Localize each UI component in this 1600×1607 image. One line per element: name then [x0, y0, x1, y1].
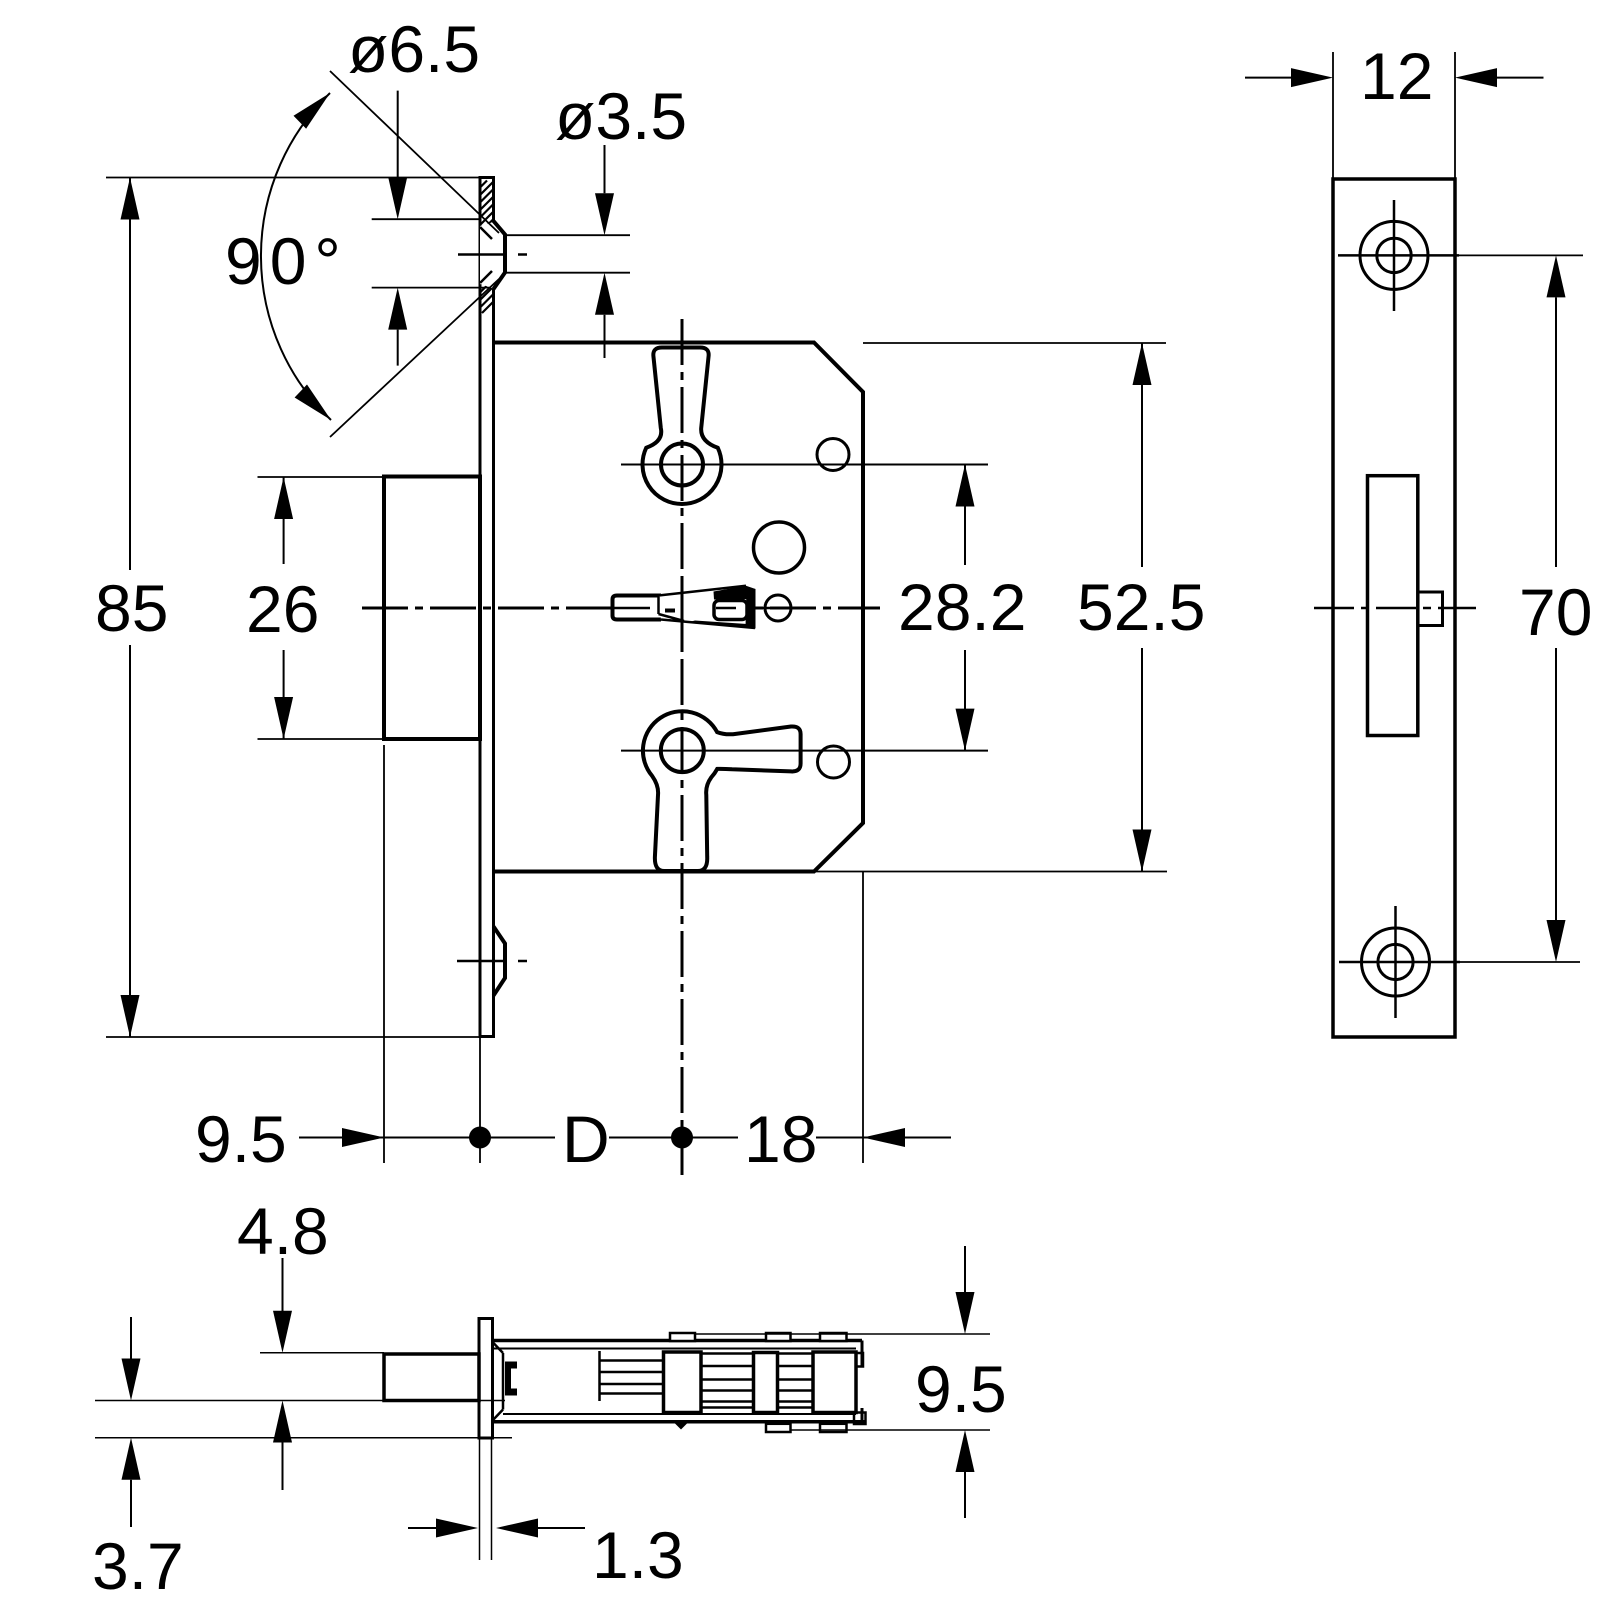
bolt protruding left (front view)	[384, 477, 480, 740]
top view: bolt head	[384, 1354, 479, 1401]
dimension o3.5 line and arrows	[604, 145, 606, 358]
top lever (handle + ring silhouette)	[642, 348, 721, 504]
node: center line through top lever hole y=464.5	[621, 464, 988, 466]
top view: faceplate extension lines for 1.3	[480, 1438, 492, 1560]
top view: faceplate bar	[479, 1319, 493, 1439]
middle circle hole	[754, 522, 805, 573]
top view: bolt tail bracket	[505, 1362, 517, 1396]
svg-text:12: 12	[1360, 39, 1433, 113]
dimension 52.5 extension lines	[814, 343, 1167, 872]
svg-text:26: 26	[246, 572, 319, 646]
key bit dark band top	[714, 586, 756, 600]
centre line through small circle	[758, 607, 802, 610]
bottom screw hole outer	[1362, 928, 1430, 996]
faceplate side view (sectioned)	[480, 178, 494, 1037]
dimension 85 line and arrows	[129, 178, 131, 1038]
key bit dark right cap	[746, 588, 756, 629]
svg-text:18: 18	[744, 1102, 817, 1176]
top view: case top wall	[493, 1339, 863, 1343]
dimension lines at bolt bottom and plate bottom	[95, 1401, 512, 1438]
dimension 26 line and arrows	[283, 477, 285, 739]
right view centre line	[1314, 607, 1476, 610]
top view: right block	[813, 1352, 856, 1413]
dimension o6.5 line and arrows	[397, 91, 399, 366]
vertical centre line over key bit	[681, 583, 684, 651]
dimension o6.5 extension lines	[372, 219, 491, 287]
angle 90 deg arc	[261, 93, 331, 420]
top view: spring leaves groups B C	[701, 1354, 813, 1408]
dimension 3.7 arrows	[130, 1317, 132, 1527]
hole lines of o3.5 through-hole	[505, 235, 630, 273]
dimension 70 extension lines	[1459, 255, 1583, 962]
bottom screw hole inner	[1378, 944, 1413, 979]
angle 90 deg cone lines	[330, 71, 499, 437]
svg-text:90°: 90°	[225, 224, 349, 298]
svg-text:9.5: 9.5	[915, 1352, 1007, 1426]
svg-text:D: D	[562, 1102, 610, 1176]
top view: rivet tabs below case	[766, 1424, 791, 1432]
key bit dark bottom sliver	[690, 621, 747, 628]
faceplate hatching (section)	[480, 181, 494, 314]
bolt slot in faceplate	[1368, 476, 1418, 736]
top lever hub hole	[661, 444, 703, 486]
top countersink funnel (stamped)	[480, 222, 505, 289]
top view: case right end verticals	[861, 1341, 864, 1422]
svg-text:1.3: 1.3	[592, 1518, 684, 1592]
datum dot at key centre	[671, 1127, 693, 1149]
top screw hole inner	[1377, 238, 1411, 272]
svg-text:85: 85	[95, 571, 168, 645]
top view: middle bar	[754, 1353, 778, 1413]
node: center tick of bottom countersink	[457, 960, 527, 963]
svg-text:ø6.5: ø6.5	[348, 12, 480, 86]
top view: chamber divider	[598, 1351, 601, 1401]
dimension 26 extension lines	[258, 477, 385, 739]
svg-text:4.8: 4.8	[237, 1194, 329, 1268]
dimension 12 extension lines	[1333, 52, 1455, 179]
lock body outline with chamfered right corners	[494, 343, 864, 872]
svg-text:28.2: 28.2	[898, 570, 1026, 644]
dimension 70 line and arrows	[1555, 297, 1557, 920]
top screw hole outer	[1360, 221, 1428, 289]
dimension 9.5 (case depth) extension lines	[695, 1334, 990, 1430]
svg-text:ø3.5: ø3.5	[555, 79, 687, 153]
faceplate front view	[1333, 179, 1455, 1037]
bottom key lever (ring + arm + leg silhouette)	[643, 711, 801, 871]
dimension 1.3 arrows	[408, 1527, 585, 1529]
dimension 9.5 (case depth) arrows	[964, 1246, 966, 1518]
key bit rounded insert	[714, 601, 747, 620]
top view: small step bottom right	[854, 1413, 866, 1425]
key bit blade outline	[659, 586, 756, 628]
top view: countersink funnel behind plate	[493, 1342, 504, 1421]
extension verticals for bottom row	[384, 745, 863, 1163]
arrow to bolt face	[342, 1128, 384, 1147]
svg-text:70: 70	[1519, 575, 1592, 649]
small circle right of key bit	[765, 595, 791, 621]
node: center tick of top countersink	[458, 253, 527, 256]
latch tab in slot	[1418, 592, 1443, 626]
svg-text:3.7: 3.7	[92, 1529, 184, 1603]
node: vertical center line x=682 through levers	[681, 319, 684, 1175]
dimension 85 extension lines	[106, 178, 480, 1038]
top view: small step top right	[856, 1353, 863, 1367]
small hole upper right of body	[817, 439, 849, 471]
top view: spring leaves group A	[600, 1361, 663, 1394]
bottom countersink on faceplate	[494, 927, 506, 996]
node: center line through bottom lever hole y=750.6	[621, 750, 988, 752]
key bit symbol: left box	[613, 596, 662, 620]
svg-text:9.5: 9.5	[195, 1102, 287, 1176]
top view: block A	[664, 1352, 702, 1413]
bottom key lever hub hole	[661, 729, 704, 772]
dimension 4.8 arrows	[282, 1258, 284, 1490]
svg-text:52.5: 52.5	[1077, 570, 1205, 644]
node: horizontal main center line y=608	[362, 607, 880, 610]
centre line dot at key	[665, 609, 675, 613]
angle arc arrowheads	[294, 93, 331, 129]
bottom screw hole cross	[1339, 906, 1460, 1018]
datum dot at faceplate face	[469, 1127, 491, 1149]
top screw hole cross	[1338, 200, 1459, 311]
top view: case bottom wall	[493, 1420, 866, 1424]
dimension 52.5 line and arrows	[1141, 343, 1143, 872]
arrow to body right edge	[863, 1128, 905, 1147]
dimension 4.8 extension line	[260, 1352, 384, 1354]
key bit centre ticks	[605, 607, 736, 610]
top view: rivet tabs above case	[670, 1333, 695, 1341]
bottom dimension row 9.5 D 18 line	[299, 1137, 951, 1139]
small hole lower right of body	[818, 746, 850, 778]
dimension 28.2 line and arrows	[964, 465, 966, 751]
key bit twisted blade (white)	[659, 586, 756, 629]
top view: small triangle marker	[674, 1423, 688, 1430]
dimension 12 arrows	[1245, 77, 1544, 79]
